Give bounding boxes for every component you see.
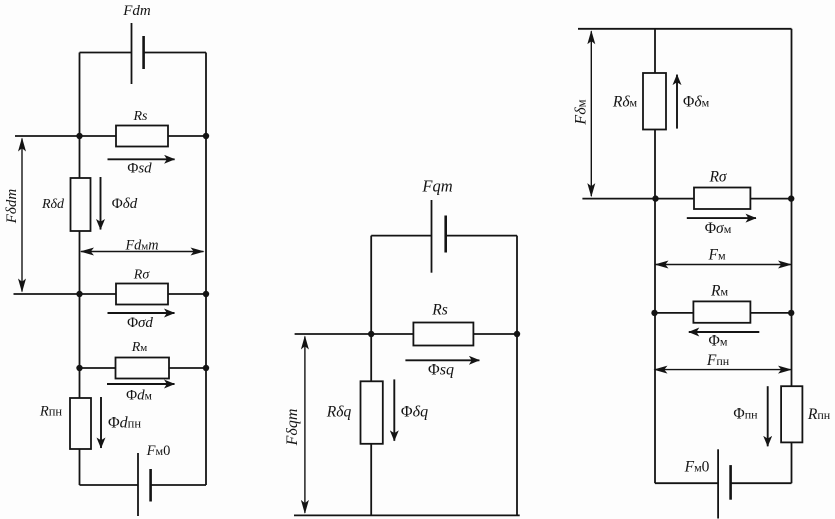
- node junction middle bus right: [514, 331, 520, 337]
- node junction bus2 right: [203, 291, 209, 297]
- wire bottom left segment of left circuit: [80, 484, 139, 486]
- resistor Rsigma left circuit: [116, 284, 168, 305]
- dimension line Fdmm: [81, 251, 204, 253]
- resistor Rs left circuit: [116, 126, 168, 147]
- node junction right bus2 right: [788, 195, 794, 201]
- wire middle circuit top horizontal left segment: [371, 235, 431, 237]
- wire left circuit top horizontal left segment: [80, 52, 132, 54]
- svg-text:Φσd: Φσd: [127, 315, 153, 331]
- svg-text:Φdпн: Φdпн: [108, 415, 141, 432]
- flux arrow Phi-sd: [108, 158, 175, 160]
- svg-text:Rδd: Rδd: [41, 197, 65, 212]
- flux arrow Phi-delta-m (upward): [676, 75, 678, 129]
- svg-text:Φпн: Φпн: [733, 406, 758, 423]
- wire right vertical of left circuit: [205, 53, 207, 486]
- flux arrow Phi-sq: [405, 359, 479, 361]
- node junction right bus3 right: [788, 310, 794, 316]
- svg-text:Fdm: Fdm: [122, 3, 151, 19]
- wire middle circuit bottom: [294, 514, 520, 516]
- wire bus2 of left circuit: [14, 293, 207, 295]
- resistor Rs middle circuit: [413, 323, 473, 346]
- wire right circuit middle vertical: [654, 29, 656, 483]
- node junction bus3 left: [76, 365, 82, 371]
- node junction bus1 left: [76, 133, 82, 139]
- svg-text:Rм: Rм: [710, 283, 728, 300]
- resistor Rdelta-m: [643, 73, 666, 130]
- wire middle circuit bus: [295, 333, 517, 335]
- wire middle circuit left vertical: [370, 236, 372, 516]
- dimension line Fm: [656, 264, 792, 266]
- wire middle circuit right vertical: [516, 236, 518, 516]
- wire bus3 of left circuit: [80, 367, 207, 369]
- flux arrow Phi-dpn: [100, 397, 102, 448]
- svg-text:Fм: Fм: [707, 247, 725, 264]
- svg-text:Fqm: Fqm: [421, 177, 452, 196]
- svg-text:Φsq: Φsq: [428, 362, 454, 379]
- svg-text:Rпн: Rпн: [807, 406, 831, 423]
- node junction middle bus left: [368, 331, 374, 337]
- flux arrow Phi-dm: [107, 383, 175, 385]
- svg-text:Φdм: Φdм: [126, 388, 152, 404]
- EMF source Fm0 right circuit (battery plates): [718, 449, 731, 518]
- flux arrow Phi-sigma-d: [108, 312, 175, 314]
- wire right circuit bottom right segment: [731, 482, 792, 484]
- flux arrow Phi-delta-q: [393, 379, 395, 440]
- EMF source Fqm (battery plates): [432, 200, 446, 273]
- dimension line Fdelta-m: [590, 31, 592, 196]
- resistor Rpn left circuit: [70, 398, 91, 449]
- svg-text:Rδq: Rδq: [326, 404, 352, 421]
- wire middle circuit top horizontal right segment: [446, 235, 517, 237]
- svg-text:Fм0: Fм0: [684, 459, 710, 476]
- svg-text:Rпн: Rпн: [39, 404, 63, 420]
- wire left vertical through Rpn branch to bottom: [79, 368, 81, 485]
- wire left vertical bus2 to bus3: [79, 294, 81, 368]
- wire right circuit bottom left segment: [655, 482, 718, 484]
- resistor Rdelta-q: [361, 381, 383, 444]
- svg-text:Rs: Rs: [133, 109, 149, 124]
- svg-text:Rσ: Rσ: [708, 169, 727, 186]
- node junction bus1 right: [203, 133, 209, 139]
- resistor Rsigma right circuit: [694, 188, 750, 210]
- wire left vertical segment top (node to bus1): [79, 53, 81, 137]
- node junction bus2 left: [76, 291, 82, 297]
- wire right circuit bus2: [582, 198, 791, 200]
- flux arrow Phi-m (leftward): [689, 331, 760, 333]
- node junction right bus3 left: [651, 310, 657, 316]
- wire right circuit top horizontal: [578, 28, 792, 30]
- svg-text:Fм0: Fм0: [146, 443, 171, 459]
- svg-text:Rσ: Rσ: [133, 268, 151, 283]
- flux arrow Phi-delta-d: [100, 177, 102, 230]
- node junction right bus2 left: [652, 195, 658, 201]
- resistor Rpn right circuit: [781, 386, 802, 442]
- svg-text:Rs: Rs: [431, 302, 448, 319]
- node junction bus3 right: [203, 365, 209, 371]
- dimension line Fdelta-qm: [304, 337, 306, 513]
- wire left circuit top horizontal right segment: [144, 52, 206, 54]
- svg-text:Rδм: Rδм: [612, 94, 638, 111]
- wire left vertical through Rdeltad branch: [79, 136, 81, 294]
- flux arrow Phi-pn (downward): [767, 386, 769, 446]
- wire right circuit right vertical: [791, 29, 793, 483]
- wire bus1 of left circuit: [15, 135, 206, 137]
- flux arrow Phi-sigma-m: [687, 217, 756, 219]
- svg-text:Φδq: Φδq: [401, 404, 428, 421]
- svg-text:Rм: Rм: [131, 340, 148, 355]
- EMF source Fdm (battery plates): [132, 23, 144, 84]
- svg-text:Φδd: Φδd: [112, 196, 138, 212]
- dimension line Fdelta-dm: [21, 139, 23, 292]
- svg-text:Φδм: Φδм: [683, 94, 710, 111]
- svg-text:Fпн: Fпн: [706, 352, 730, 369]
- wire bottom right segment of left circuit: [151, 484, 206, 486]
- svg-text:Φσм: Φσм: [705, 220, 732, 237]
- svg-text:Fdмm: Fdмm: [125, 238, 159, 254]
- svg-text:Φм: Φм: [709, 333, 728, 350]
- resistor Rm left circuit: [116, 358, 170, 379]
- EMF source Fm0 left circuit (battery plates): [138, 453, 151, 516]
- dimension line Fpn: [655, 369, 792, 371]
- svg-text:Φsd: Φsd: [127, 161, 152, 177]
- resistor Rm right circuit: [693, 301, 750, 322]
- wire right circuit bus3: [655, 312, 792, 314]
- svg-text:Fδм: Fδм: [573, 99, 590, 125]
- svg-text:Fδqm: Fδqm: [284, 409, 301, 447]
- svg-text:Fδdm: Fδdm: [4, 189, 20, 225]
- resistor Rdelta-d: [71, 178, 91, 231]
